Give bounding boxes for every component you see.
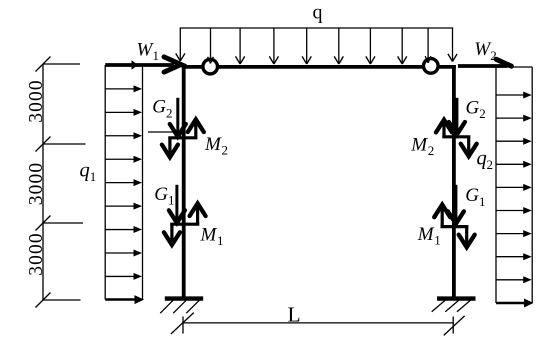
svg-text:q: q bbox=[80, 159, 90, 181]
load strip q1 right edge wire bbox=[142, 65, 144, 300]
force G2 right arrow bbox=[449, 98, 465, 135]
svg-text:1: 1 bbox=[153, 48, 160, 63]
q load arrow 10 bbox=[448, 28, 457, 62]
moment M2 right (couple) bbox=[436, 120, 477, 157]
q2 arrow 7 bbox=[496, 230, 532, 237]
q1 arrow 8 bbox=[105, 249, 142, 256]
right column bbox=[452, 65, 456, 298]
q1 arrow 6 bbox=[105, 203, 142, 210]
svg-text:3000: 3000 bbox=[26, 79, 47, 122]
svg-text:1: 1 bbox=[168, 193, 175, 208]
svg-text:2: 2 bbox=[222, 143, 229, 158]
force G1 left arrow bbox=[169, 185, 185, 223]
q2 arrow 2 bbox=[496, 115, 532, 122]
dimension tick 4 bbox=[36, 293, 81, 308]
q load arrow at right hinge bbox=[425, 28, 431, 63]
svg-text:M: M bbox=[200, 224, 218, 245]
q load arrow 3 bbox=[236, 28, 245, 64]
dimension L left tick bbox=[171, 313, 194, 334]
svg-text:G: G bbox=[466, 97, 480, 118]
svg-text:3000: 3000 bbox=[26, 232, 47, 275]
svg-text:G: G bbox=[152, 97, 166, 118]
q2 arrow 6 bbox=[496, 207, 532, 214]
svg-text:2: 2 bbox=[479, 106, 486, 121]
wire: q load top line bbox=[180, 27, 454, 29]
svg-text:2: 2 bbox=[490, 48, 497, 63]
dimension L right tick bbox=[444, 316, 465, 336]
dimension L line bbox=[183, 322, 453, 324]
q2 bottom thick arrow bbox=[496, 299, 534, 308]
hinge left bbox=[203, 59, 218, 74]
svg-text:M: M bbox=[204, 134, 222, 155]
svg-text:2: 2 bbox=[166, 105, 173, 120]
svg-text:1: 1 bbox=[479, 194, 486, 209]
q2 arrow 4 bbox=[496, 161, 532, 168]
q load arrow at left hinge bbox=[208, 28, 214, 63]
svg-text:q: q bbox=[313, 2, 323, 24]
svg-text:1: 1 bbox=[217, 233, 224, 248]
q1 bottom thick arrow bbox=[105, 295, 144, 304]
svg-text:1: 1 bbox=[434, 233, 441, 248]
beam bbox=[182, 65, 456, 69]
q load arrow 6 bbox=[334, 28, 343, 64]
load strip q2 right edge wire bbox=[531, 67, 533, 303]
force G2 left arrow bbox=[170, 98, 186, 137]
q2 arrow 9 bbox=[496, 276, 532, 283]
force W2 arrow bbox=[458, 59, 512, 66]
force W1 arrow bbox=[105, 57, 181, 72]
svg-text:G: G bbox=[465, 185, 479, 206]
left column bbox=[182, 65, 186, 298]
q load arrow 4 bbox=[269, 28, 278, 64]
q load arrow 5 bbox=[302, 28, 311, 64]
support left (fixed base) bbox=[160, 299, 203, 314]
load strip q2 top edge wire bbox=[496, 66, 532, 68]
q load arrow 1 bbox=[176, 28, 185, 61]
moment M1 right (couple) bbox=[434, 205, 475, 248]
dimension tick 1 bbox=[36, 57, 81, 72]
q1 arrow 9 bbox=[105, 273, 142, 280]
dimension tick 3 bbox=[36, 216, 84, 231]
q2 arrow 3 bbox=[496, 138, 532, 145]
force G1 right arrow bbox=[448, 185, 464, 224]
svg-text:2: 2 bbox=[428, 143, 435, 158]
svg-text:2: 2 bbox=[487, 157, 494, 172]
svg-text:G: G bbox=[154, 184, 168, 205]
svg-text:q: q bbox=[477, 147, 487, 169]
q2 arrow 8 bbox=[496, 253, 532, 260]
q load arrow 8 bbox=[398, 28, 407, 64]
load strip q2 left edge wire bbox=[495, 67, 497, 303]
dimension chain vertical line bbox=[42, 64, 44, 300]
dimension tick 2 bbox=[36, 137, 86, 152]
q1 arrow 5 bbox=[105, 179, 142, 186]
svg-text:3000: 3000 bbox=[26, 162, 47, 205]
q1 arrow 1 bbox=[105, 85, 142, 92]
svg-text:M: M bbox=[410, 134, 428, 155]
q load arrow 7 bbox=[366, 28, 375, 64]
q1 arrow 7 bbox=[105, 226, 142, 233]
load strip q1 left edge wire bbox=[104, 65, 106, 300]
moment M1 left (couple) bbox=[164, 203, 206, 245]
support right (fixed base) bbox=[432, 299, 476, 312]
q1 arrow 4 bbox=[105, 156, 142, 163]
q1 arrow 3 bbox=[105, 132, 142, 139]
hinge right bbox=[424, 59, 439, 74]
svg-text:1: 1 bbox=[90, 169, 97, 184]
svg-text:L: L bbox=[288, 303, 301, 327]
q2 arrow 1 bbox=[496, 92, 532, 99]
q2 arrow 5 bbox=[496, 184, 532, 191]
moment M2 left (couple) bbox=[162, 119, 204, 157]
svg-text:M: M bbox=[417, 224, 435, 245]
node: G2 level tie line left bbox=[148, 131, 184, 133]
q1 arrow 2 bbox=[105, 109, 142, 116]
